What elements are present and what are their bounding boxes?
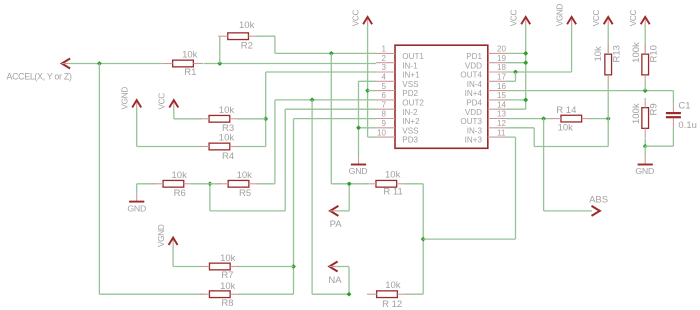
pin 19 VDD <box>488 62 507 64</box>
svg-text:10k: 10k <box>593 46 604 62</box>
pin 2 IN-1 <box>376 62 395 64</box>
svg-text:VCC: VCC <box>158 93 167 110</box>
ground GND symbol below IC (VSS) <box>358 128 360 157</box>
wire R8 right <box>238 293 293 295</box>
svg-text:ABS: ABS <box>589 195 608 206</box>
svg-text:VCC: VCC <box>629 10 638 27</box>
svg-text:GND: GND <box>349 166 368 176</box>
resistor R8 <box>209 291 230 298</box>
svg-text:17: 17 <box>497 73 507 82</box>
wire ACCEL down to R8 <box>98 64 100 295</box>
svg-text:10k: 10k <box>385 280 401 291</box>
svg-text:PD3: PD3 <box>402 136 418 145</box>
node junction VSS pin 9 <box>356 125 361 130</box>
wire pin 3 IN+1 to R3 R4 <box>266 71 376 73</box>
wire VCC down to PD2 pin 5 and PD3 pin 10 <box>367 25 369 137</box>
wire pin 8 IN+2 <box>294 118 377 120</box>
svg-text:10k: 10k <box>239 20 255 31</box>
svg-text:IN-4: IN-4 <box>467 80 483 89</box>
svg-text:19: 19 <box>497 54 507 63</box>
node junction R11-R12 right to IN+3 <box>421 237 426 242</box>
svg-text:GND: GND <box>127 203 146 213</box>
wire PA to R11 left net <box>337 210 349 212</box>
svg-text:R 12: R 12 <box>382 299 402 310</box>
svg-text:PD4: PD4 <box>466 99 482 108</box>
node junction R7 right <box>291 264 296 269</box>
node junction R5-R6 <box>207 181 212 186</box>
pin 9 VSS <box>376 127 395 129</box>
svg-text:IN+1: IN+1 <box>402 71 420 80</box>
wire VSS pin4 to pin9 <box>358 81 360 128</box>
wire ABS branch down <box>543 119 545 211</box>
wire R2 right to pin 1 OUT1 <box>256 35 275 37</box>
ground GND symbol right below R9 <box>644 146 646 156</box>
svg-text:VGND: VGND <box>157 224 166 247</box>
svg-text:10k: 10k <box>182 50 198 61</box>
pin 11 IN+3 <box>488 136 507 138</box>
label arrow ABS <box>592 206 600 216</box>
resistor R11 <box>376 180 397 187</box>
svg-text:OUT2: OUT2 <box>402 99 424 108</box>
resistor R14 <box>561 115 582 122</box>
svg-text:NA: NA <box>328 275 342 286</box>
wire R10 bottom to IN+4 line <box>644 83 646 91</box>
svg-text:4: 4 <box>381 73 386 82</box>
wire R1 right to R2 left <box>219 36 221 63</box>
resistor R9 <box>642 108 649 129</box>
svg-text:R8: R8 <box>221 298 233 309</box>
svg-text:IN+2: IN+2 <box>402 117 420 126</box>
svg-text:VSS: VSS <box>402 80 419 89</box>
svg-text:IN+4: IN+4 <box>465 89 483 98</box>
svg-text:R5: R5 <box>239 188 251 199</box>
wire pin 6 OUT2 <box>275 99 376 101</box>
svg-text:OUT1: OUT1 <box>402 52 424 61</box>
wire NA to R12 left <box>336 266 349 268</box>
svg-text:VDD: VDD <box>465 108 482 117</box>
node junction OUT4 to IN-4 <box>513 70 518 75</box>
wire VGND to R7 left <box>172 246 174 267</box>
node junction R1-R2 <box>217 61 222 66</box>
svg-text:OUT3: OUT3 <box>460 117 482 126</box>
wire pin 15 PD4 <box>507 99 526 101</box>
input arrow ACCEL <box>62 59 70 69</box>
pin 5 PD2 <box>376 90 395 92</box>
wire VCC to R10 top <box>644 25 646 47</box>
wire OUT2 down to R12 left <box>311 100 313 294</box>
wire GND to R6 left <box>137 183 156 185</box>
wire R14 right to R13 bottom <box>590 118 608 120</box>
svg-text:18: 18 <box>497 63 507 72</box>
svg-text:PD2: PD2 <box>402 89 418 98</box>
svg-text:IN-1: IN-1 <box>402 61 418 70</box>
svg-text:PA: PA <box>330 219 343 230</box>
node junction R11 left <box>347 181 352 186</box>
wire OUT1 down to R11 left <box>330 53 332 183</box>
svg-text:15: 15 <box>497 91 507 100</box>
pin 12 IN-3 <box>488 127 507 129</box>
svg-text:10k: 10k <box>219 133 235 144</box>
svg-text:VCC: VCC <box>510 10 519 27</box>
wire VCC to R3 left <box>173 108 175 119</box>
svg-text:VGND: VGND <box>555 3 564 26</box>
wire VGND down to OUT4 pin 18 <box>571 25 573 72</box>
svg-text:2: 2 <box>381 54 386 63</box>
wire ACCEL input horizontal to pin 2 IN-1 <box>70 63 163 65</box>
node junction R9-C1-GND <box>643 144 648 149</box>
node junction R10-R9 <box>643 88 648 93</box>
power VGND arrow above IC right <box>571 18 573 25</box>
svg-text:10k: 10k <box>237 170 253 181</box>
wire IN-2 down to R5-R6 junction <box>284 109 286 211</box>
svg-text:5: 5 <box>381 82 386 91</box>
power VCC arrow mid-left <box>173 102 175 109</box>
svg-text:10k: 10k <box>220 253 236 264</box>
resistor R5 <box>228 180 249 187</box>
wire R13 bottom <box>607 83 609 119</box>
svg-text:12: 12 <box>497 119 507 128</box>
pin 14 VDD <box>488 108 507 110</box>
power VCC arrow above R13 <box>607 18 609 25</box>
resistor R13 <box>605 54 612 75</box>
node junction VCC-PD2 <box>365 88 370 93</box>
wire C1 bottom to GND <box>672 118 674 128</box>
svg-text:3: 3 <box>381 63 386 72</box>
wire R11 right down <box>405 183 424 185</box>
svg-text:IN-3: IN-3 <box>467 126 483 135</box>
pin 15 PD4 <box>488 99 507 101</box>
svg-text:11: 11 <box>497 128 506 137</box>
svg-text:10k: 10k <box>172 170 188 181</box>
wire R7 right to IN+2 vertical <box>238 266 293 268</box>
svg-text:R1: R1 <box>184 67 196 78</box>
svg-text:R7: R7 <box>221 270 233 281</box>
svg-text:10: 10 <box>377 128 387 137</box>
pin 10 PD3 <box>376 136 395 138</box>
svg-text:8: 8 <box>381 110 386 119</box>
wire OUT4 feedback to IN-4 pin 17 <box>515 72 517 81</box>
svg-text:20: 20 <box>497 45 507 54</box>
label arrow PA <box>330 206 338 216</box>
svg-text:OUT4: OUT4 <box>460 71 482 80</box>
node junction OUT2 branch <box>310 97 315 102</box>
resistor R3 <box>209 115 230 122</box>
svg-text:13: 13 <box>497 110 507 119</box>
wire IN+2 down to R7-R8 junction <box>293 119 295 295</box>
wire pin 16 IN+4 to divider <box>507 90 674 92</box>
resistor R6 <box>163 180 184 187</box>
svg-text:7: 7 <box>381 100 386 109</box>
svg-text:IN-2: IN-2 <box>402 108 418 117</box>
resistor R7 <box>209 263 230 270</box>
svg-text:C1: C1 <box>678 100 690 111</box>
svg-text:10k: 10k <box>220 281 236 292</box>
power VCC arrow near IC left <box>367 18 369 25</box>
svg-text:R13: R13 <box>612 45 623 62</box>
svg-text:IN+3: IN+3 <box>465 136 483 145</box>
svg-text:R 11: R 11 <box>383 186 402 197</box>
pin 13 OUT3 <box>488 118 507 120</box>
resistor R10 <box>642 54 649 75</box>
svg-text:10k: 10k <box>558 123 574 134</box>
svg-text:100k: 100k <box>631 103 642 124</box>
wire pin 7 IN-2 <box>285 108 376 110</box>
node junction OUT1 <box>329 51 334 56</box>
node junction OUT3 <box>541 116 546 121</box>
pin 17 IN-4 <box>488 80 507 82</box>
svg-text:VSS: VSS <box>402 126 419 135</box>
wire VCC to R13 top <box>607 25 609 47</box>
wire pin 14 VDD <box>507 108 526 110</box>
svg-text:9: 9 <box>381 119 386 128</box>
svg-text:R6: R6 <box>174 188 186 199</box>
pin 18 OUT4 <box>488 71 507 73</box>
resistor R1 <box>173 60 194 67</box>
pin 7 IN-2 <box>376 108 395 110</box>
pin 1 OUT1 <box>376 52 395 54</box>
wire pin 12 IN-3 path <box>507 127 535 129</box>
svg-text:VDD: VDD <box>465 61 482 70</box>
svg-text:100k: 100k <box>631 42 642 63</box>
svg-text:R 14: R 14 <box>556 105 576 116</box>
label arrow NA <box>329 262 337 272</box>
svg-text:R4: R4 <box>222 151 234 162</box>
svg-text:R9: R9 <box>649 103 660 115</box>
pin 6 OUT2 <box>376 99 395 101</box>
node junction R3 right <box>263 116 268 121</box>
node junction R12 left <box>347 292 352 297</box>
resistor R2 <box>228 33 249 40</box>
wire OUT2 down to R5 right <box>274 100 276 184</box>
node junction ACCEL branch <box>97 61 102 66</box>
capacitor C1 <box>672 91 674 103</box>
wire to pin 11 IN+3 <box>423 238 515 240</box>
power VCC arrow above R10 <box>644 18 646 25</box>
svg-text:1: 1 <box>381 45 386 54</box>
svg-text:VCC: VCC <box>592 10 601 27</box>
svg-text:R2: R2 <box>241 41 253 52</box>
wire R6 to R5 <box>192 183 221 185</box>
wire VGND to R4 left <box>136 108 138 147</box>
wire R9 bottom <box>644 138 646 146</box>
svg-text:PD1: PD1 <box>466 52 482 61</box>
ground GND symbol left below R6 <box>136 184 138 194</box>
svg-text:R10: R10 <box>649 45 660 62</box>
pin 16 IN+4 <box>488 90 507 92</box>
power VGND arrow left <box>136 102 138 109</box>
wire pin 19 VDD <box>507 62 526 64</box>
pin 3 IN+1 <box>376 71 395 73</box>
node junction R13-R14 <box>606 116 611 121</box>
pin 20 PD1 <box>488 52 507 54</box>
resistor R4 <box>209 143 230 150</box>
svg-text:VGND: VGND <box>121 87 130 110</box>
svg-text:0.1u: 0.1u <box>678 120 697 131</box>
pin 4 VSS <box>376 80 395 82</box>
svg-text:14: 14 <box>497 100 507 109</box>
power VCC arrow right of IC <box>525 18 527 25</box>
svg-text:VCC: VCC <box>351 10 360 27</box>
svg-text:GND: GND <box>635 166 654 176</box>
svg-text:10k: 10k <box>385 170 401 181</box>
wire R12 right <box>405 293 423 295</box>
svg-text:ACCEL(X, Y or Z): ACCEL(X, Y or Z) <box>7 71 72 81</box>
power VGND arrow lower-left <box>172 239 174 246</box>
op-amp IC U1 box <box>395 45 488 148</box>
wire VCC to PD1 VDD PD4 VDD <box>525 25 527 109</box>
wire R4 right <box>238 146 266 148</box>
wire R3 right <box>238 118 266 120</box>
svg-text:6: 6 <box>381 91 386 100</box>
svg-text:10k: 10k <box>219 105 235 116</box>
svg-text:16: 16 <box>497 82 507 91</box>
pin 8 IN+2 <box>376 118 395 120</box>
wire pin 20 PD1 <box>507 52 526 54</box>
resistor R12 <box>377 291 398 298</box>
wire pin 13 OUT3 to R14 <box>507 118 553 120</box>
